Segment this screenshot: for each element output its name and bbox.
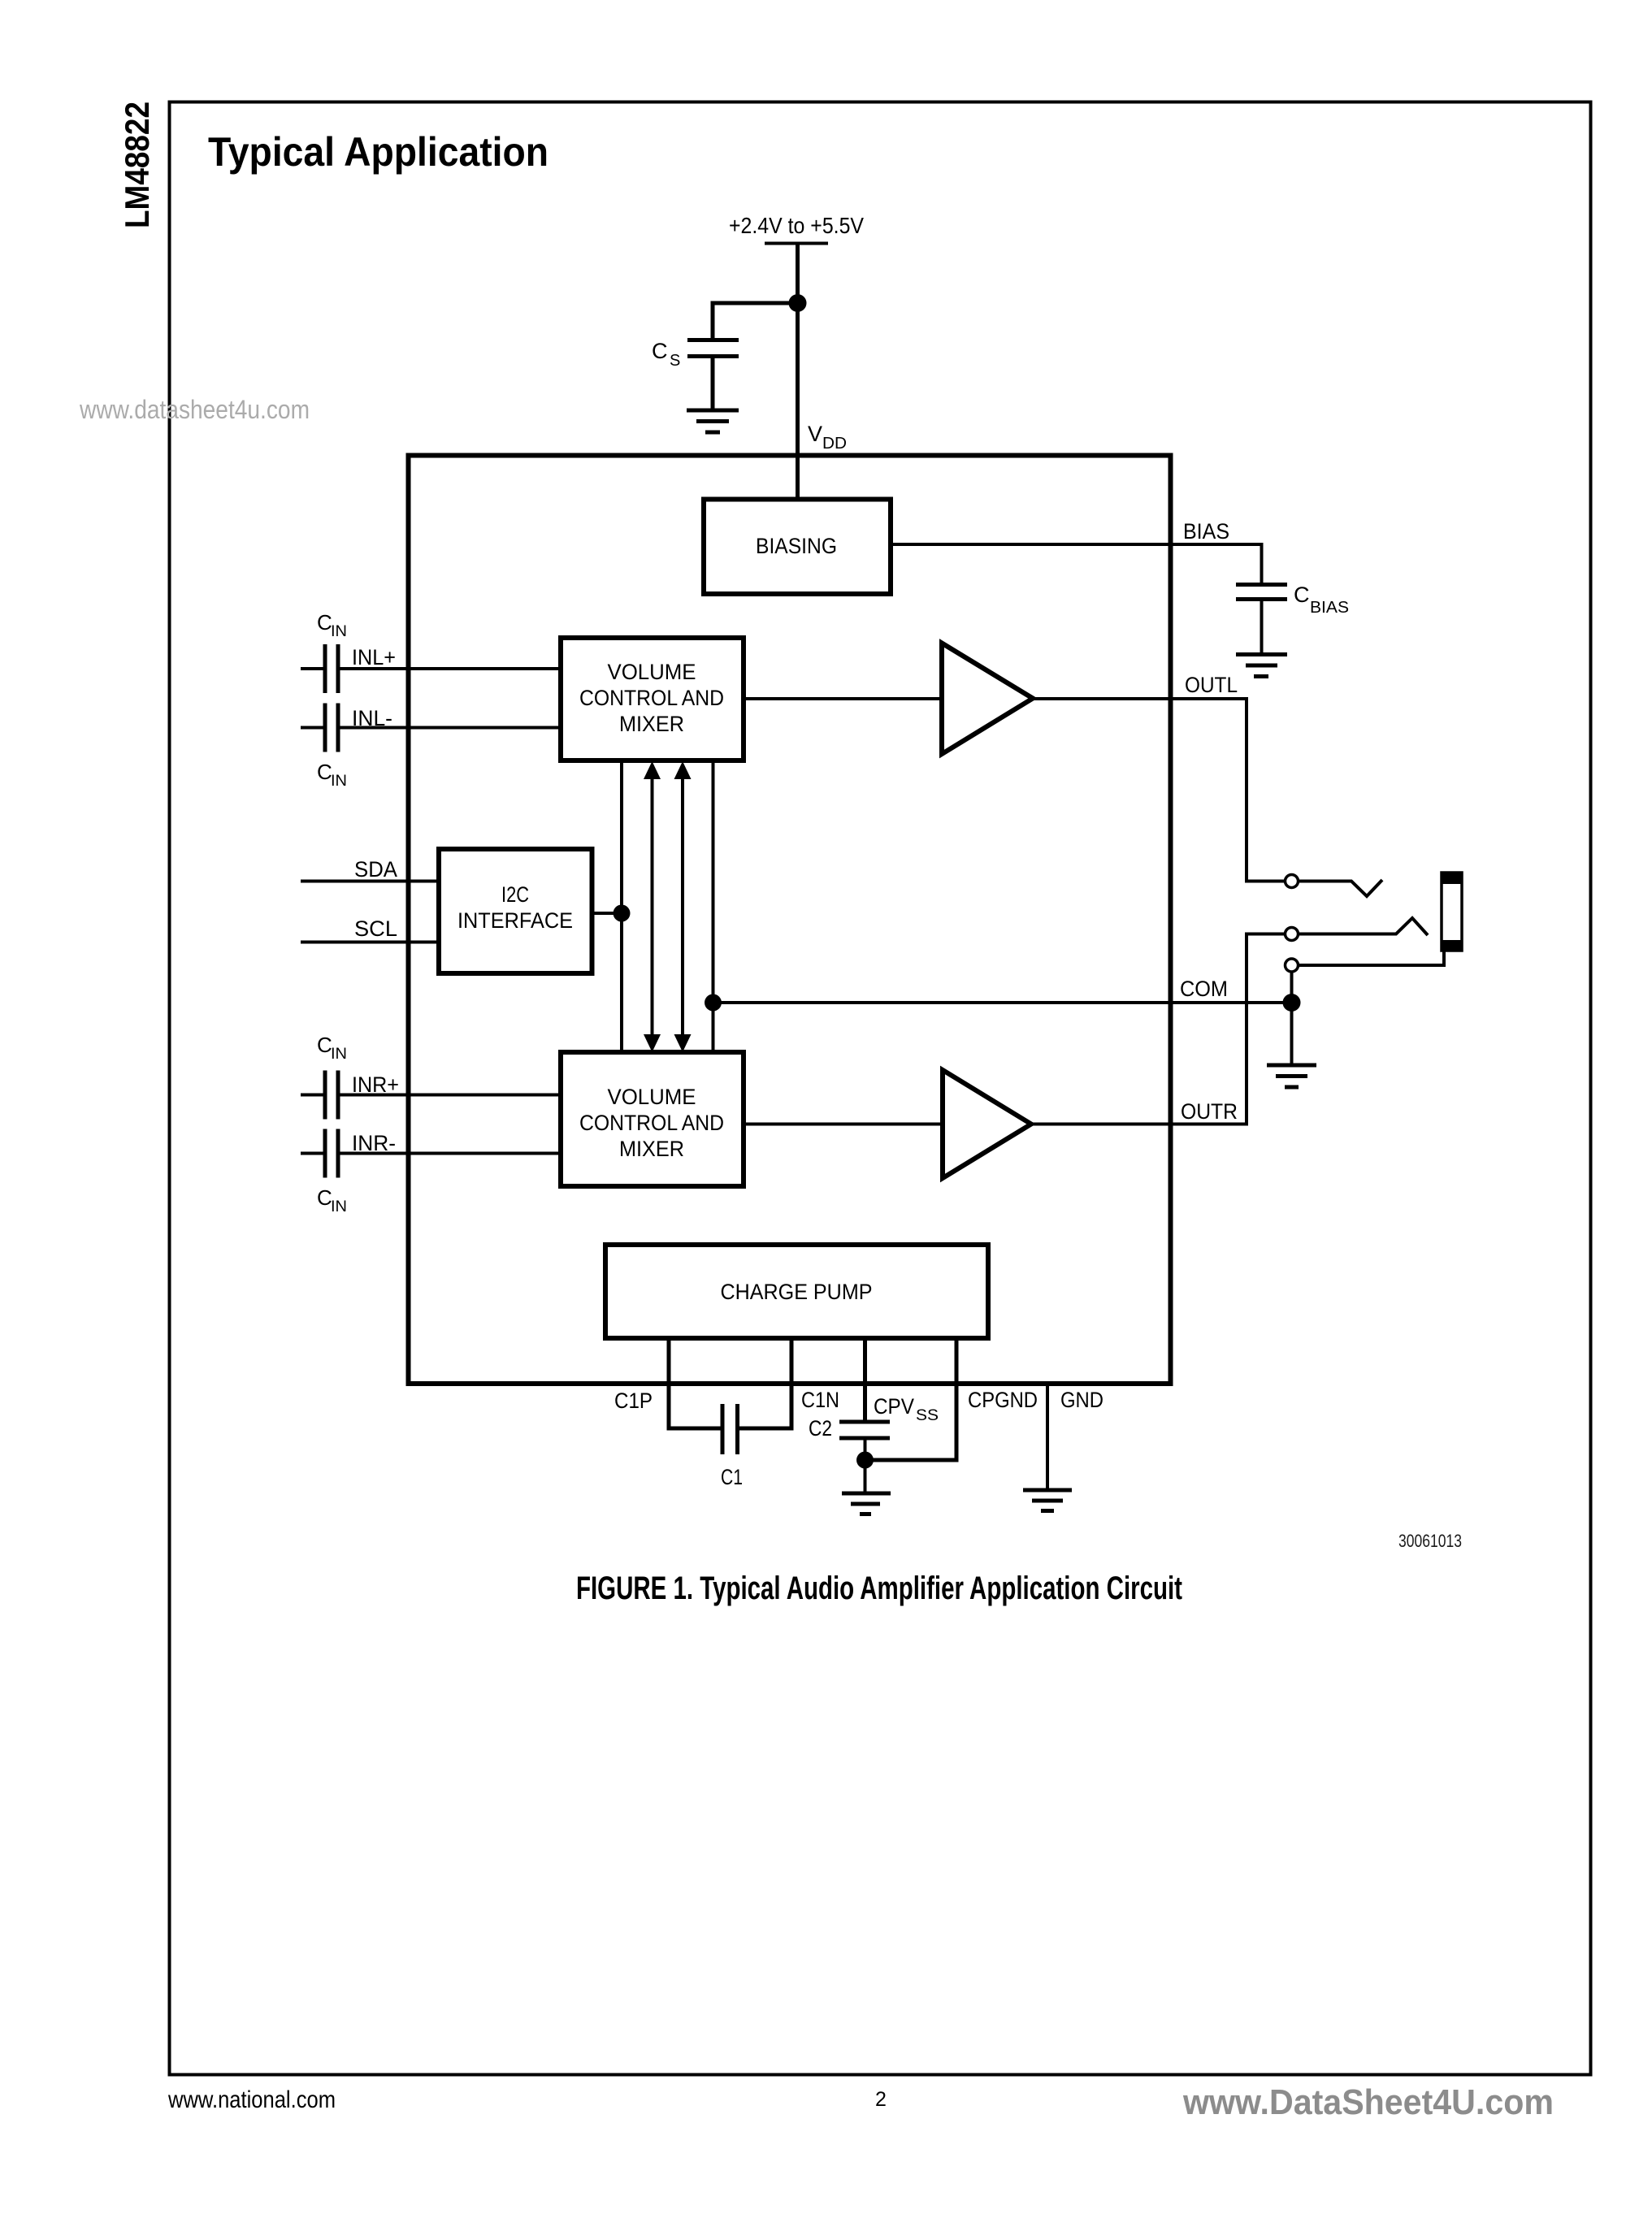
supply rail bar [765, 242, 828, 245]
wire INL+ to volume control [338, 667, 561, 670]
IC outline box U1 [409, 456, 1171, 1384]
svg-text:LM48822: LM48822 [118, 102, 156, 228]
svg-text:GND: GND [1060, 1388, 1104, 1412]
svg-text:I2C: I2C [501, 882, 529, 907]
label CIN (INR-) [317, 1185, 347, 1215]
svg-text:C1P: C1P [614, 1389, 653, 1413]
label CIN (INL+) [317, 610, 347, 640]
svg-text:CONTROL AND: CONTROL AND [579, 1111, 724, 1135]
junction sleeve/COM/ground [1283, 994, 1301, 1012]
wire bus arrow line 4 (double headed) [674, 761, 692, 1052]
svg-text:CHARGE PUMP: CHARGE PUMP [721, 1280, 873, 1304]
block VOLUME CONTROL AND MIXER (left channel) [561, 638, 744, 760]
junction COM tap on bus [705, 994, 722, 1012]
wire I2C output to bus [592, 912, 622, 915]
wire VDD vertical from supply to BIASING [796, 244, 800, 500]
wire SDA [301, 880, 439, 883]
jack tip switch contact [1299, 880, 1383, 896]
wire supply to CS [713, 303, 798, 339]
wire GND stub [1046, 1384, 1049, 1488]
svg-text:www.national.com: www.national.com [167, 2086, 336, 2113]
wire INR- to volume control [338, 1152, 561, 1155]
svg-text:+2.4V to +5.5V: +2.4V to +5.5V [729, 213, 864, 238]
capacitor CIN at INR- [301, 1129, 338, 1178]
label CS [652, 339, 680, 370]
svg-text:2: 2 [875, 2088, 887, 2111]
svg-text:MIXER: MIXER [619, 1137, 684, 1161]
label CIN (INR+) [317, 1033, 347, 1063]
capacitor C1 [722, 1404, 738, 1454]
pin label CPVSS [874, 1394, 939, 1424]
jack ring switch contact [1299, 918, 1429, 935]
wire bus line 5 between volume blocks [712, 760, 715, 1052]
svg-text:CPV: CPV [874, 1394, 914, 1419]
wire OUTL from amp to jack tip [1033, 699, 1286, 882]
svg-text:C: C [317, 610, 332, 635]
wire CPVSS stub [863, 1338, 867, 1420]
svg-text:CPGND: CPGND [968, 1388, 1038, 1412]
svg-text:Typical Application: Typical Application [208, 129, 548, 175]
capacitor CBIAS [1236, 585, 1287, 654]
label CBIAS [1294, 583, 1349, 617]
junction supply node [789, 294, 807, 312]
svg-text:BIASING: BIASING [756, 534, 837, 558]
svg-text:C: C [317, 1033, 332, 1057]
jack tip terminal circle [1286, 875, 1299, 888]
svg-text:CONTROL AND: CONTROL AND [579, 686, 724, 710]
block VOLUME CONTROL AND MIXER (right channel) [561, 1052, 744, 1186]
svg-text:30061013: 30061013 [1398, 1531, 1462, 1551]
svg-text:MIXER: MIXER [619, 712, 684, 736]
wire bus arrow line 2 (double headed) [644, 761, 661, 1052]
capacitor CS [687, 340, 739, 409]
block BIASING [704, 500, 891, 595]
wire INL- to volume control [338, 726, 561, 730]
jack sleeve terminal circle [1286, 959, 1299, 972]
svg-text:INTERFACE: INTERFACE [457, 908, 573, 933]
svg-text:BIAS: BIAS [1183, 519, 1229, 544]
svg-text:C1: C1 [721, 1465, 743, 1489]
svg-text:C: C [652, 339, 668, 363]
wire INR+ to volume control [338, 1094, 561, 1097]
op-amp AL (left headphone amp) [942, 643, 1033, 755]
svg-text:OUTL: OUTL [1185, 673, 1238, 697]
svg-text:C2: C2 [809, 1416, 832, 1441]
wire COM from bus to jack ground [713, 1001, 1292, 1004]
svg-text:SDA: SDA [354, 857, 397, 882]
wire bus line 1 between volume blocks [620, 760, 623, 1052]
svg-text:FIGURE 1. Typical Audio Amplif: FIGURE 1. Typical Audio Amplifier Applic… [576, 1571, 1182, 1606]
op-amp AR (right headphone amp) [943, 1070, 1031, 1178]
svg-text:V: V [808, 422, 822, 446]
wire sleeve circle to ground junction [1290, 972, 1294, 1064]
svg-text:C: C [1294, 583, 1310, 607]
block CHARGE PUMP [605, 1245, 988, 1338]
svg-text:www.DataSheet4U.com: www.DataSheet4U.com [1182, 2082, 1554, 2122]
svg-text:IN: IN [331, 773, 347, 790]
wire OUTR from amp to jack ring [1031, 934, 1286, 1124]
capacitor C2 [839, 1422, 890, 1493]
svg-text:VOLUME: VOLUME [608, 1085, 696, 1109]
svg-text:BIAS: BIAS [1310, 599, 1349, 617]
ground at jack sleeve [1267, 1065, 1316, 1087]
svg-text:VOLUME: VOLUME [608, 660, 696, 684]
svg-text:C1N: C1N [801, 1388, 839, 1412]
svg-text:INL+: INL+ [352, 645, 396, 669]
ground at GND pin [1023, 1490, 1072, 1511]
wire sleeve to jack body [1299, 951, 1445, 965]
jack ring terminal circle [1286, 928, 1299, 941]
wire SCL [301, 941, 439, 944]
svg-text:S: S [670, 352, 680, 370]
junction C2/CPGND [856, 1452, 874, 1469]
capacitor CIN at INR+ [301, 1071, 338, 1120]
label CIN (INL-) [317, 760, 347, 790]
block I2C INTERFACE [439, 849, 592, 973]
capacitor CIN at INL+ [301, 644, 338, 693]
svg-text:C: C [317, 760, 332, 784]
pin label VDD [808, 422, 847, 453]
ground below C2 [842, 1493, 891, 1514]
wire volume control L to amp AL [744, 697, 942, 700]
svg-text:SS: SS [916, 1407, 939, 1424]
wire CPGND stub [865, 1338, 957, 1460]
wire C1P stub [669, 1338, 722, 1428]
wire C1N stub [738, 1338, 792, 1428]
page border frame [170, 102, 1591, 2075]
svg-text:IN: IN [331, 1046, 347, 1063]
svg-text:SCL: SCL [354, 916, 397, 941]
svg-text:www.datasheet4u.com: www.datasheet4u.com [79, 395, 310, 424]
svg-text:DD: DD [822, 435, 847, 453]
svg-text:IN: IN [331, 1198, 347, 1215]
svg-text:C: C [317, 1185, 332, 1210]
svg-text:OUTR: OUTR [1181, 1099, 1238, 1124]
wire BIAS from BIASING to CBIAS [891, 544, 1262, 583]
svg-text:COM: COM [1180, 977, 1228, 1001]
headphone jack body J1 [1442, 873, 1462, 951]
junction I2C to bus [614, 905, 631, 922]
ground below CBIAS [1236, 655, 1287, 677]
wire volume control R to amp AR [744, 1123, 943, 1126]
ground below CS [687, 410, 739, 432]
svg-text:IN: IN [331, 623, 347, 640]
capacitor CIN at INL- [301, 704, 338, 752]
